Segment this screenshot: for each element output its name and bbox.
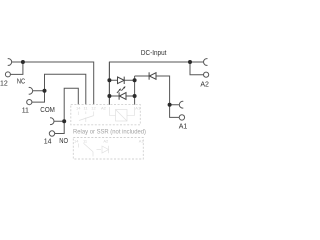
node: junction at terminal 11 xyxy=(43,89,47,93)
terminal screw 14 xyxy=(49,131,54,136)
svg-text:NC: NC xyxy=(17,79,26,86)
LED D2 (status LED, pointing left) xyxy=(119,92,126,99)
diode D1 (protection diode, pointing right) xyxy=(118,77,125,84)
svg-text:Relay or SSR (not included): Relay or SSR (not included) xyxy=(73,129,146,136)
svg-text:11: 11 xyxy=(84,106,89,111)
wire: bridge bottom branch xyxy=(109,95,134,97)
svg-text:14: 14 xyxy=(76,106,81,111)
socket contact 14 xyxy=(50,118,54,125)
svg-text:A1: A1 xyxy=(139,139,145,144)
node: junction at terminal 14 xyxy=(62,119,66,123)
terminal screw A1 xyxy=(179,115,184,120)
terminal screw 11 xyxy=(27,100,32,105)
relay coil xyxy=(109,107,134,121)
svg-text:14: 14 xyxy=(74,139,79,144)
svg-text:COM: COM xyxy=(40,107,55,114)
wire: COM net, terminal 11 to relay pin 11 xyxy=(32,74,86,104)
wire: DC-Input bus from A2 to bridge left rail and relay pin A2 xyxy=(109,62,203,105)
wire: series branch to A1 xyxy=(135,76,170,105)
SSR contact xyxy=(79,143,94,156)
socket contact 12 xyxy=(8,59,12,66)
wire: bridge left rail xyxy=(108,62,110,105)
socket contact A1 xyxy=(179,101,183,108)
wire: A1 terminal branch xyxy=(170,105,180,118)
node: bridge top-right xyxy=(133,78,137,82)
node: bridge bottom-left xyxy=(107,94,111,98)
svg-text:A2: A2 xyxy=(200,81,209,88)
svg-text:11: 11 xyxy=(83,139,88,144)
node: bridge bottom-right xyxy=(133,94,137,98)
node: junction at terminal 12 xyxy=(21,60,25,64)
diode D3 (series diode, pointing left) xyxy=(149,72,156,79)
svg-text:12: 12 xyxy=(0,81,8,88)
svg-text:A2: A2 xyxy=(101,106,107,111)
relay changeover contact xyxy=(78,112,94,123)
svg-text:14: 14 xyxy=(44,139,52,146)
terminal screw 12 xyxy=(5,72,10,77)
svg-text:12: 12 xyxy=(91,106,96,111)
svg-text:11: 11 xyxy=(22,108,29,115)
socket contact A2 xyxy=(204,59,208,66)
wire: NO net, terminal 14 to relay pin 14 xyxy=(54,88,78,133)
LED light arrows xyxy=(117,86,126,93)
svg-text:NO: NO xyxy=(59,138,68,145)
wire: bridge right rail xyxy=(134,76,136,105)
svg-text:A1: A1 xyxy=(179,124,188,131)
svg-text:DC-Input: DC-Input xyxy=(141,50,167,57)
relay box (dashed outline, not included) xyxy=(71,105,141,125)
SSR opto triac symbol xyxy=(97,146,109,154)
wire: A2 terminal branch xyxy=(190,62,204,75)
svg-text:A1: A1 xyxy=(135,106,141,111)
node: bridge top-left xyxy=(107,78,111,82)
node: junction A1 xyxy=(168,103,172,107)
svg-text:A2: A2 xyxy=(103,139,109,144)
wire: NC net, terminal 12 to relay pin 12 xyxy=(10,62,93,105)
socket contact 11 xyxy=(29,87,33,94)
node: junction A2 xyxy=(188,60,192,64)
SSR box (dashed outline, not included) xyxy=(73,138,143,160)
terminal screw A2 xyxy=(204,72,209,77)
wire: bridge top branch xyxy=(109,79,134,81)
